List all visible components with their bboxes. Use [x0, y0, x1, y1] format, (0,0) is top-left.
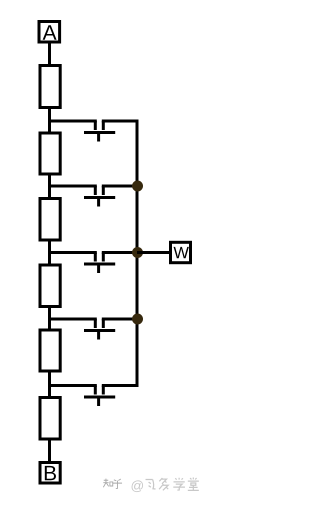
junction dot at Q2/bus — [132, 181, 143, 192]
transistor Q2 — [48, 186, 139, 207]
transistor Q3 — [48, 253, 139, 274]
node B terminal box — [40, 463, 60, 484]
wire Q4 drain terminal to W bus — [102, 318, 139, 321]
Q1 source electrode — [94, 121, 97, 130]
resistor R3 — [40, 199, 60, 241]
Q4 gate lead — [97, 331, 100, 340]
Q1 gate lead — [97, 133, 100, 142]
Q5 gate lead — [97, 398, 100, 407]
node A terminal box — [39, 22, 60, 43]
wire: W bus vertical with top corner to Q1 and bottom corner to Q5 — [102, 121, 137, 386]
junction dot at Q4/bus — [132, 314, 143, 325]
wire Q1 source terminal from tap — [48, 120, 97, 123]
node W terminal box — [171, 242, 191, 262]
resistor R2 — [40, 133, 60, 174]
watermark — [103, 478, 199, 493]
Q3 drain electrode — [102, 253, 105, 262]
resistor R5 — [40, 330, 60, 371]
resistor R4 — [40, 265, 60, 307]
transistor Q5 — [48, 386, 115, 407]
resistor R1 — [40, 66, 60, 108]
Q1 gate bar — [84, 131, 115, 134]
wire Q2 source terminal from tap — [48, 185, 97, 188]
Q2 gate bar — [84, 196, 115, 199]
wire Q5 source terminal from tap — [48, 384, 97, 387]
Q4 source electrode — [94, 319, 97, 328]
Q3 gate bar — [84, 263, 115, 266]
wire Q2 drain terminal to W bus — [102, 185, 139, 188]
Q4 gate bar — [84, 329, 115, 332]
transistor Q4 — [48, 319, 139, 340]
wire Q3 drain terminal to W bus — [102, 251, 139, 254]
junction dot at Q3/bus/W tap — [132, 247, 143, 258]
Q3 gate lead — [97, 265, 100, 274]
Q3 source electrode — [94, 253, 97, 262]
Q4 drain electrode — [102, 319, 105, 328]
transistor Q1 — [48, 121, 115, 142]
wire: resistor chain vertical from A to B — [48, 43, 51, 462]
wire: tap to W terminal — [137, 251, 170, 254]
Q5 gate bar — [84, 396, 115, 399]
Q5 drain electrode — [102, 386, 105, 395]
Q2 drain electrode — [102, 186, 105, 195]
Q2 source electrode — [94, 186, 97, 195]
wire Q3 source terminal from tap — [48, 251, 97, 254]
resistor R6 — [40, 398, 60, 440]
Q2 gate lead — [97, 198, 100, 207]
Q1 drain electrode — [102, 121, 105, 130]
Q5 source electrode — [94, 386, 97, 395]
wire Q4 source terminal from tap — [48, 318, 97, 321]
